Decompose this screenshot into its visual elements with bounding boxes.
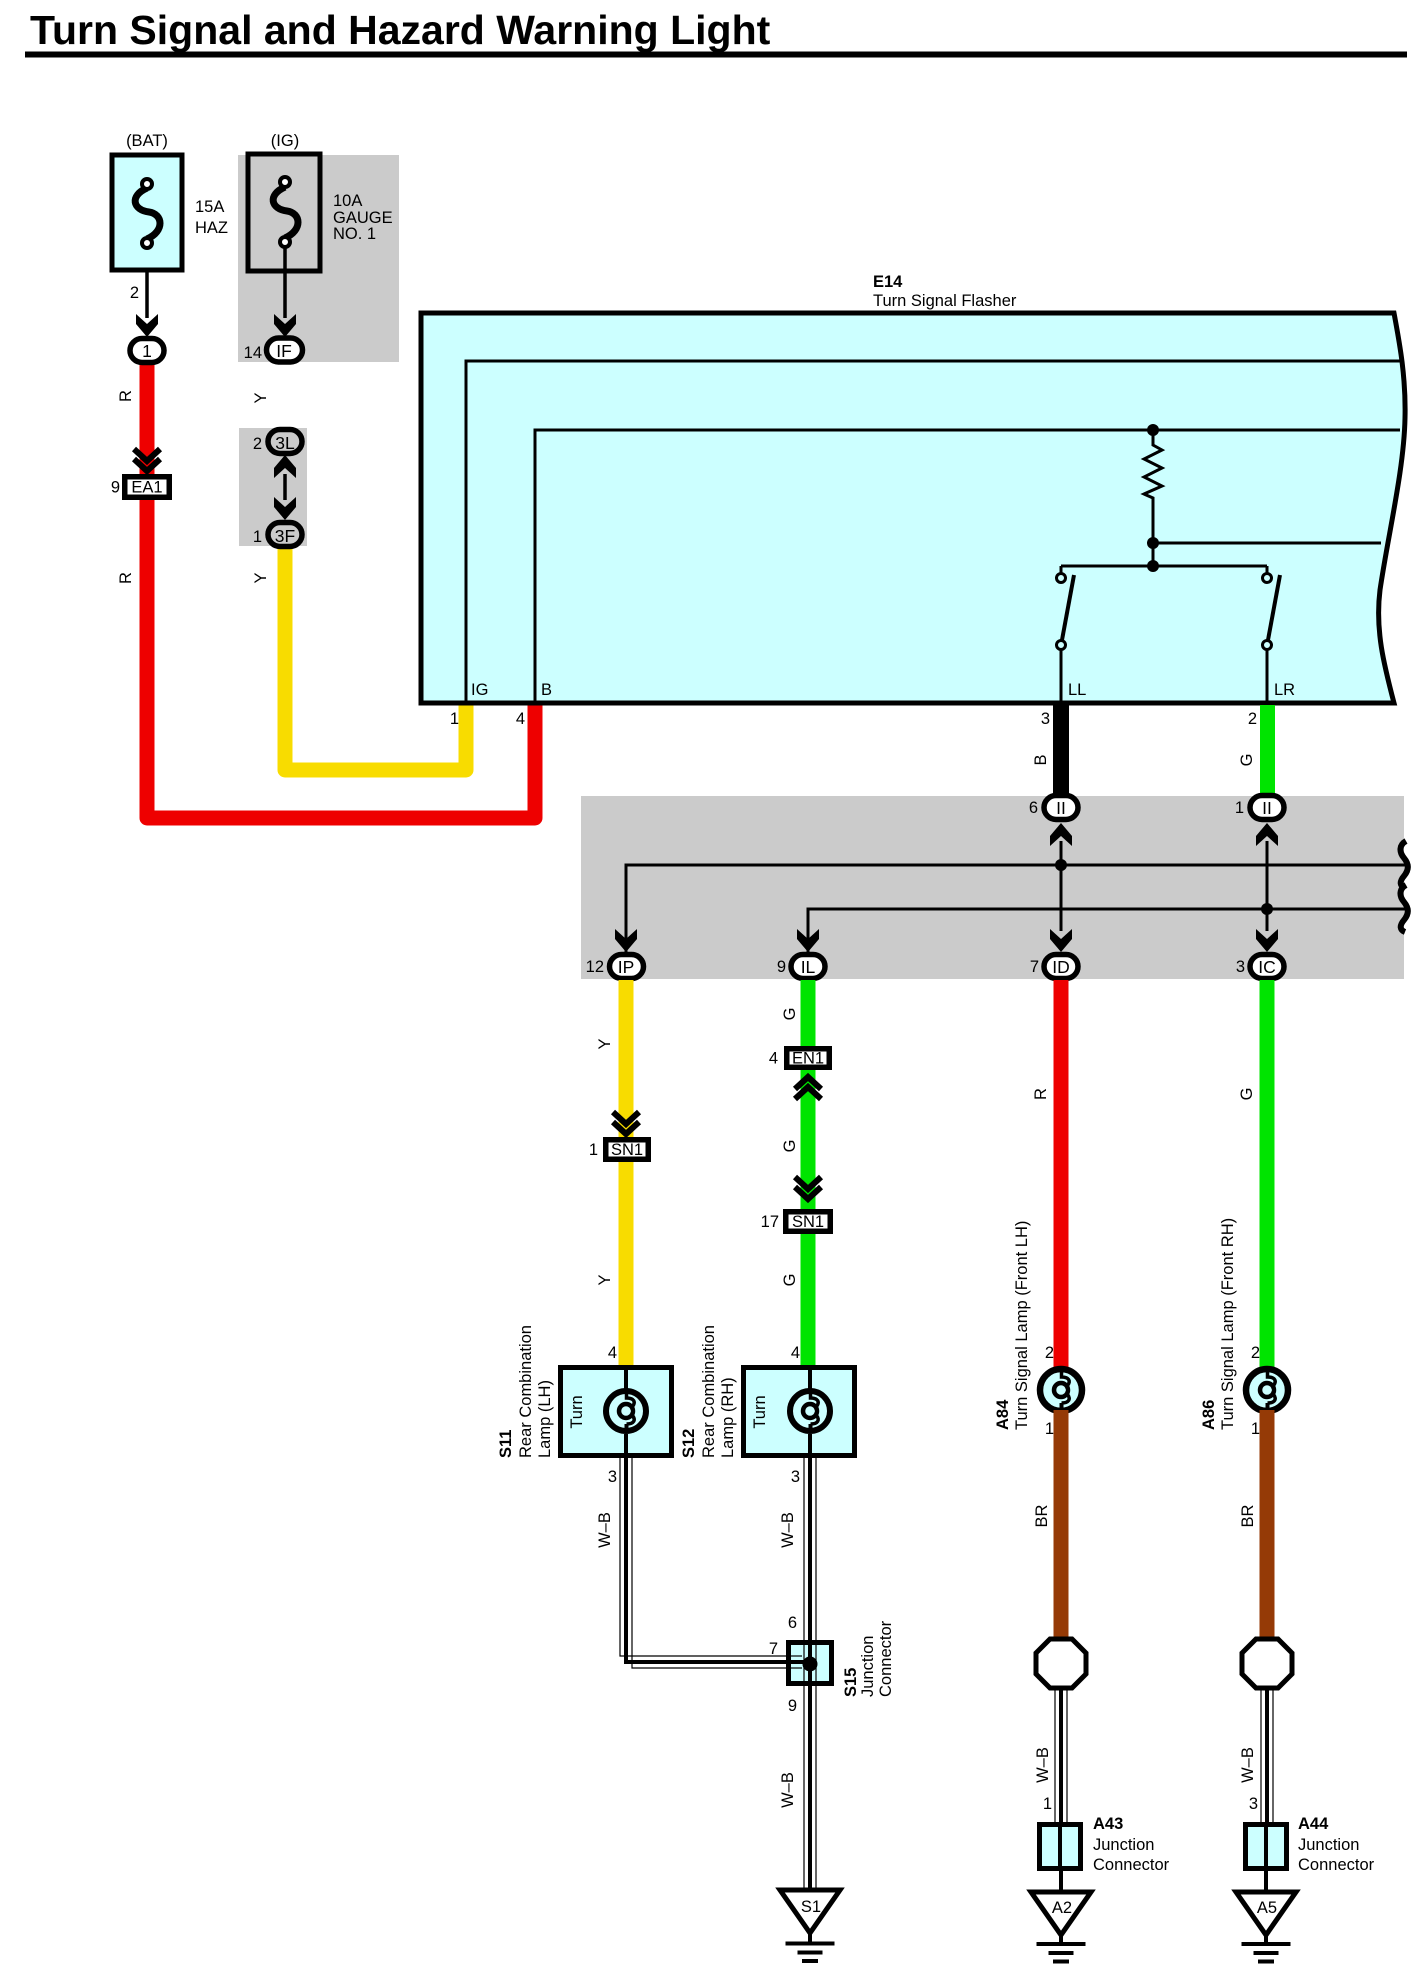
arrow down into ID [1050,929,1072,952]
resistor inside flasher [1144,430,1162,543]
svg-text:W–B: W–B [1239,1747,1257,1783]
arrow up under II-1 [1256,823,1278,846]
connector EN1-4 box [787,1049,830,1068]
svg-text:1: 1 [1235,799,1244,817]
arrow down into IP [615,929,637,952]
wire labels W-B at A43/A44 [1034,1747,1257,1783]
svg-text:6: 6 [1029,799,1038,817]
pin 3 at A44 [1249,1795,1258,1813]
svg-text:A86: A86 [1200,1400,1218,1430]
title: Turn Signal and Hazard Warning Light [25,7,1407,58]
flasher internal IG trace [466,361,1402,703]
wire R (red) ID to front lamp A84 [1054,980,1069,1370]
svg-text:G: G [781,1274,799,1287]
lamp S12 box [744,1365,855,1458]
pin 17 at SN1 [761,1213,779,1231]
svg-text:3: 3 [1041,710,1050,728]
svg-text:BR: BR [1239,1504,1257,1527]
svg-text:Junction: Junction [859,1636,877,1697]
pins 2/1 at A84 [1045,1344,1054,1438]
svg-text:1: 1 [253,528,262,546]
svg-text:R: R [1032,1088,1050,1100]
wire R (red) from connector 1 through EA1 down and right up to flasher pin 4 [147,360,535,818]
pins 2/1 at A86 [1251,1344,1260,1438]
connector IL oval [791,955,825,979]
ground S1 [780,1890,840,1963]
pin 1 at SN1 [589,1141,598,1159]
vertical line II-6 to ID [1055,841,1067,931]
svg-text:1: 1 [589,1141,598,1159]
svg-text:4: 4 [769,1050,778,1068]
svg-text:S12: S12 [680,1429,698,1458]
wire label R lower [117,572,135,584]
svg-text:Y: Y [252,572,270,583]
lamp A86 name labels [1200,1218,1237,1430]
pin 1 at A43 [1043,1795,1052,1813]
pins 6/7/9 at S15 [769,1614,797,1715]
svg-text:Y: Y [252,392,270,403]
svg-text:A44: A44 [1298,1815,1329,1833]
wire BR (brown) A86 to octagon [1260,1410,1275,1640]
svg-text:G: G [781,1008,799,1021]
inner harness line 2 [808,909,1405,952]
svg-text:A43: A43 [1093,1815,1123,1833]
svg-text:G: G [1238,754,1256,767]
connector 3L oval [268,430,302,454]
svg-text:B: B [1032,754,1050,765]
connector 1 oval [130,339,164,363]
gray block behind IG fuse [238,155,399,362]
lamp A84 name labels [994,1221,1031,1430]
svg-text:II: II [1262,798,1272,818]
wire label Y at IP column upper [596,1038,614,1049]
wire labels BR [1033,1504,1257,1527]
chevron pair up under EN1 [795,1077,821,1099]
svg-text:R: R [117,390,135,402]
flasher pin numbers 1 4 3 2 [450,710,1257,728]
svg-text:A5: A5 [1257,1899,1277,1917]
svg-text:4: 4 [516,710,525,728]
svg-text:EN1: EN1 [792,1050,824,1068]
svg-text:Rear Combination: Rear Combination [517,1325,535,1458]
svg-text:3F: 3F [275,526,295,546]
pins 6/1 at II connectors [1029,799,1244,817]
node below resistor [1147,537,1381,566]
wire label G at LR [1238,754,1256,767]
wire label R upper [117,390,135,402]
svg-text:Turn Signal Lamp (Front LH): Turn Signal Lamp (Front LH) [1013,1221,1031,1430]
pins 2/1 at 3L/3F [253,435,262,546]
ground A2 [1031,1871,1091,1964]
svg-text:Junction: Junction [1093,1836,1154,1854]
svg-text:6: 6 [788,1614,797,1632]
node on B trace [1147,424,1159,436]
connector 3F oval [268,523,302,547]
wire label W-B below S15 [779,1772,797,1808]
connector II-6 oval [1044,796,1078,820]
junction connector S15 box [789,1643,832,1684]
wire W-B from S11 to S15 [620,1458,788,1668]
pin 4 at EN1 [769,1050,778,1068]
svg-text:S15: S15 [842,1668,860,1697]
wire from IG fuse to connector IF [274,247,296,337]
svg-text:W–B: W–B [1034,1747,1052,1783]
continuation squiggle at line 1 [1400,841,1407,888]
svg-text:2: 2 [1045,1344,1054,1362]
svg-text:LL: LL [1068,681,1086,699]
svg-text:1: 1 [450,710,459,728]
svg-text:Y: Y [596,1274,614,1285]
wire Y (yellow) from connector 3F down and right up to flasher pin 1 [285,540,466,770]
connector IC oval [1250,955,1284,979]
wire W-B from octagon to A43 [1055,1688,1067,1822]
pins 4/3 at S12 [791,1344,800,1486]
flasher E14 box body [421,313,1405,703]
svg-text:II: II [1056,798,1066,818]
svg-text:G: G [1238,1088,1256,1101]
flasher E14 name labels [873,273,1017,310]
svg-text:W–B: W–B [779,1512,797,1548]
wire Y (yellow) IP to S11 [619,980,634,1365]
wire label B [1032,754,1050,765]
wire W-B from S12 through S15 to ground S1 [804,1458,816,1890]
svg-text:9: 9 [777,958,786,976]
octagon splice A84 side [1036,1639,1086,1688]
wire label Y at IP column lower [596,1274,614,1285]
wire G (green) flasher pin 2 to connector II-1 [1260,705,1275,795]
svg-text:3: 3 [1249,1795,1258,1813]
svg-text:Turn Signal Flasher: Turn Signal Flasher [873,292,1017,310]
svg-text:(BAT): (BAT) [126,132,168,150]
svg-text:1: 1 [1251,1420,1260,1438]
pin 9 at EA1 [111,479,120,497]
fusebox (IG) box [248,154,320,271]
arrow down into IC [1256,929,1278,952]
connector EA1 box [125,477,170,498]
svg-text:7: 7 [1030,958,1039,976]
svg-text:LR: LR [1274,681,1295,699]
fuse 15A HAZ symbol [135,179,160,248]
connector ID oval [1044,955,1078,979]
arrow up into 3L [274,455,296,500]
svg-text:Y: Y [596,1038,614,1049]
svg-text:A84: A84 [994,1399,1012,1430]
svg-text:IC: IC [1258,957,1276,977]
svg-text:3: 3 [608,1468,617,1486]
svg-text:E14: E14 [873,273,903,291]
switch LL [1057,566,1075,703]
svg-text:Connector: Connector [1298,1856,1375,1874]
lamp S11 box [561,1365,672,1458]
wire label R at ID column [1032,1088,1050,1100]
svg-text:15A: 15A [195,198,224,216]
chevron pair above EA1 [134,449,160,471]
pins 12/9/7/3 at IP/IL/ID/IC [586,958,1245,976]
svg-text:Turn: Turn [568,1395,586,1428]
arrow down into 3F [274,497,296,520]
wire G (green) IL to S12 [801,980,816,1365]
svg-text:IF: IF [276,341,292,361]
vertical line II-1 to IC [1261,841,1273,931]
svg-text:(IG): (IG) [271,132,299,150]
svg-text:9: 9 [111,479,120,497]
bulb A86 [1246,1369,1288,1411]
svg-text:17: 17 [761,1213,779,1231]
lamp S11 name labels [497,1325,586,1458]
bulb A84 [1040,1369,1082,1411]
junction A43 name labels [1093,1815,1170,1874]
wire label G at IC column [1238,1088,1256,1101]
svg-text:NO. 1: NO. 1 [333,225,376,243]
node at switch rail [1061,560,1267,572]
svg-text:2: 2 [253,435,262,453]
wire label Y lower [252,572,270,583]
svg-text:Connector: Connector [877,1620,895,1697]
svg-text:10A: 10A [333,192,362,210]
chevron pair down above SN1-17 [795,1177,821,1199]
junction S15 name labels [842,1620,895,1697]
fusebox (BAT) box [112,155,182,270]
svg-text:14: 14 [244,344,262,362]
junction connector A44 box [1246,1825,1287,1869]
svg-text:9: 9 [788,1697,797,1715]
svg-text:Turn Signal Lamp (Front RH): Turn Signal Lamp (Front RH) [1219,1218,1237,1430]
svg-text:4: 4 [608,1344,617,1362]
svg-text:A2: A2 [1052,1899,1072,1917]
svg-text:ID: ID [1052,957,1070,977]
svg-text:IG: IG [471,681,488,699]
svg-text:EA1: EA1 [131,479,162,497]
wire B (black) flasher pin 3 to connector II-6 [1053,705,1069,795]
svg-text:Turn: Turn [751,1395,769,1428]
svg-text:Turn Signal and Hazard Warning: Turn Signal and Hazard Warning Light [30,7,771,53]
svg-text:W–B: W–B [779,1772,797,1808]
octagon splice A86 side [1242,1639,1292,1688]
svg-text:3: 3 [791,1468,800,1486]
svg-text:G: G [781,1140,799,1153]
svg-text:B: B [541,681,552,699]
svg-text:3L: 3L [275,433,295,453]
fuse (IG) labels [244,132,393,362]
gray block behind 3L/3F connectors [239,428,307,546]
junction connector A43 box [1040,1825,1081,1869]
junction A44 name labels [1298,1815,1375,1874]
svg-text:1: 1 [1043,1795,1052,1813]
svg-text:4: 4 [791,1344,800,1362]
svg-text:S11: S11 [497,1430,515,1458]
svg-text:12: 12 [586,958,604,976]
wire from BAT fuse to connector 1 [136,270,158,337]
connector IF oval [267,338,303,362]
connector SN1-17 box [786,1212,831,1232]
svg-text:2: 2 [1251,1344,1260,1362]
gray instrument-panel connector band [581,796,1404,979]
ground A5 [1236,1871,1296,1964]
connector IP oval [610,955,644,979]
svg-text:7: 7 [769,1640,778,1658]
svg-text:SN1: SN1 [792,1213,824,1231]
svg-text:Lamp (LH): Lamp (LH) [536,1380,554,1458]
wire labels G at IL column [781,1008,799,1287]
svg-text:1: 1 [1045,1420,1054,1438]
wire W-B from octagon to A44 [1261,1688,1273,1822]
svg-text:S1: S1 [801,1898,821,1916]
inner harness line 1 [626,865,1405,952]
svg-text:IL: IL [801,957,816,977]
lamp S12 name labels [680,1325,769,1458]
svg-text:3: 3 [1236,958,1245,976]
connector SN1-1 box [606,1140,649,1160]
svg-text:Lamp (RH): Lamp (RH) [719,1377,737,1458]
svg-text:2: 2 [1248,710,1257,728]
connector II-1 oval [1250,796,1284,820]
fuse 10A GAUGE NO.1 symbol [273,177,298,247]
svg-text:IP: IP [618,957,635,977]
flasher internal B trace [535,430,1400,703]
svg-text:2: 2 [130,284,139,302]
svg-text:Rear Combination: Rear Combination [700,1325,718,1458]
svg-text:1: 1 [142,341,152,361]
chevron pair above SN1-1 [613,1112,639,1134]
bulb S12 [790,1391,830,1431]
wire G (green) IC to front lamp A86 [1260,980,1275,1370]
wire label Y upper [252,392,270,403]
svg-text:R: R [117,572,135,584]
svg-text:Junction: Junction [1298,1836,1359,1854]
wire labels W-B at S11/S12 [596,1512,797,1548]
continuation squiggle at line 2 [1400,885,1407,932]
fuse (BAT) labels [126,132,228,302]
flasher pin names IG B LL LR [471,681,1295,699]
svg-text:W–B: W–B [596,1512,614,1548]
arrow down into IL [797,929,819,952]
svg-text:HAZ: HAZ [195,219,228,237]
svg-text:SN1: SN1 [611,1141,643,1159]
pins 4/3 at S11 [608,1344,617,1486]
svg-text:Connector: Connector [1093,1856,1170,1874]
arrow up under II-6 [1050,823,1072,846]
wire BR (brown) A84 to octagon [1054,1410,1069,1640]
switch LR [1263,566,1281,703]
svg-text:BR: BR [1033,1504,1051,1527]
bulb S11 [606,1391,646,1431]
